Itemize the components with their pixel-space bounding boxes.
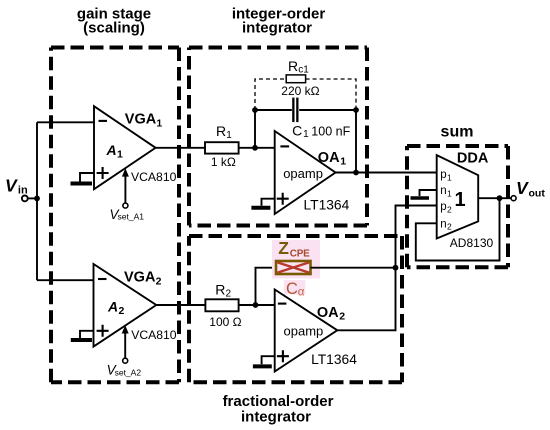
svg-text:OA: OA — [317, 305, 339, 321]
svg-text:set_A2: set_A2 — [115, 368, 142, 378]
wire Z_CPE to OA2 output riser — [311, 267, 396, 269]
wire to A2 inverting input — [37, 279, 94, 281]
svg-text:DDA: DDA — [457, 150, 489, 166]
svg-text:1: 1 — [340, 156, 346, 168]
dashed box: sum — [407, 146, 508, 267]
svg-text:n: n — [440, 218, 446, 230]
wire feedback riser left — [254, 110, 256, 148]
svg-text:R: R — [288, 58, 298, 74]
svg-text:C: C — [286, 280, 298, 298]
wire to A1 inverting input — [37, 121, 94, 123]
svg-text:2: 2 — [447, 204, 452, 214]
control arrow Vset_A1 — [110, 168, 145, 222]
wire R1 to OA1 inverting input — [239, 147, 275, 149]
node Vin junction — [34, 196, 40, 202]
svg-text:A: A — [107, 299, 118, 315]
resistor Rc1 — [281, 58, 319, 98]
svg-text:V: V — [5, 175, 18, 195]
node R2 output junction — [253, 302, 259, 308]
ground at DDA n1 — [411, 196, 430, 200]
wire n2 feedback loop — [416, 198, 500, 260]
wire feedback left to C1 — [255, 109, 292, 111]
svg-text:out: out — [529, 188, 546, 200]
wire C1 to feedback right — [299, 109, 356, 111]
node Vout junction — [497, 195, 503, 201]
ground at OA1 non-inverting input — [251, 199, 274, 208]
op-amp OA2 — [275, 290, 357, 372]
node CPE feedback junction — [393, 265, 399, 271]
node feedback left — [252, 107, 258, 113]
svg-text:VCA810: VCA810 — [131, 170, 177, 184]
dashed box: fractional-order integrator — [189, 236, 402, 382]
svg-text:LT1364: LT1364 — [304, 197, 350, 212]
ground at A2 non-inverting input — [71, 331, 94, 340]
svg-text:c1: c1 — [298, 65, 309, 76]
svg-text:100 Ω: 100 Ω — [209, 315, 241, 329]
svg-text:1: 1 — [156, 118, 162, 130]
wire Vin to node — [28, 197, 37, 199]
svg-text:AD8130: AD8130 — [450, 236, 494, 250]
svg-text:VCA810: VCA810 — [131, 328, 177, 342]
svg-text:p: p — [440, 201, 446, 213]
svg-text:VGA: VGA — [124, 269, 156, 285]
svg-text:2: 2 — [156, 275, 162, 287]
section title: sum — [441, 124, 474, 141]
svg-text:V: V — [516, 178, 529, 198]
svg-text:2: 2 — [447, 222, 452, 232]
svg-text:1: 1 — [117, 148, 123, 160]
svg-text:R: R — [215, 282, 225, 298]
node OA1 output — [353, 170, 359, 176]
node feedback right — [353, 107, 359, 113]
ground at OA2 non-inverting input — [253, 356, 275, 366]
resistor R2 — [205, 282, 241, 329]
svg-text:1: 1 — [447, 189, 452, 199]
control arrow Vset_A2 — [107, 325, 142, 377]
svg-text:LT1364: LT1364 — [311, 352, 357, 367]
CPE element Z_CPE — [276, 238, 311, 274]
resistor R1 — [205, 123, 239, 169]
DDA U1 AD8130 — [437, 150, 494, 250]
dashed box: gain stage — [51, 48, 179, 383]
svg-text:(scaling): (scaling) — [83, 20, 145, 37]
amplifier A2 VGA2 triangle — [94, 264, 177, 347]
svg-text:p: p — [440, 169, 446, 181]
wire OA1 output to DDA p1 — [336, 172, 437, 174]
svg-text:sum: sum — [441, 124, 474, 141]
svg-text:2: 2 — [119, 305, 125, 317]
svg-text:fractional-order: fractional-order — [223, 393, 334, 410]
label C_alpha — [286, 280, 305, 299]
svg-text:set_A1: set_A1 — [118, 212, 145, 222]
svg-text:integrator: integrator — [242, 20, 312, 37]
capacitor C1 — [292, 98, 350, 141]
wire A2 output to R2 — [156, 304, 205, 306]
svg-text:α: α — [298, 287, 305, 299]
ground at A1 non-inverting input — [71, 173, 95, 184]
section title: fractional-order integrator — [223, 393, 334, 426]
svg-text:2: 2 — [226, 288, 232, 299]
wire input bus vertical — [36, 122, 38, 280]
section title: integer-order integrator — [232, 6, 326, 37]
output terminal Vout — [511, 178, 545, 201]
svg-text:1: 1 — [455, 189, 466, 211]
svg-text:1 kΩ: 1 kΩ — [211, 155, 236, 169]
wire feedback riser OA2 — [256, 268, 277, 305]
wire R2 to OA2 inverting input — [239, 304, 275, 306]
svg-text:220 kΩ: 220 kΩ — [281, 84, 319, 98]
svg-text:CPE: CPE — [290, 249, 310, 260]
node R1 output junction — [252, 145, 258, 151]
wire feedback riser right — [355, 110, 357, 173]
svg-text:Z: Z — [278, 238, 289, 258]
amplifier A1 VGA1 triangle — [94, 106, 177, 189]
svg-text:OA: OA — [318, 150, 340, 166]
svg-text:integrator: integrator — [241, 408, 311, 425]
svg-text:2: 2 — [339, 311, 345, 323]
svg-text:C: C — [292, 123, 302, 139]
svg-text:1: 1 — [447, 172, 452, 182]
svg-text:VGA: VGA — [125, 112, 157, 128]
svg-text:in: in — [18, 185, 28, 197]
wire DDA output — [478, 197, 511, 199]
svg-text:A: A — [106, 142, 117, 158]
svg-text:opamp: opamp — [283, 166, 323, 181]
svg-text:opamp: opamp — [284, 324, 324, 339]
svg-text:100 nF: 100 nF — [311, 125, 350, 139]
wire n1 to ground — [420, 190, 437, 196]
wire OA2 output — [337, 206, 436, 331]
svg-text:1: 1 — [226, 130, 232, 141]
CPE highlight background — [272, 240, 320, 295]
dashed box: integer-order integrator — [189, 48, 367, 226]
wire A1 output to R1 — [156, 147, 205, 149]
input terminal Vin — [5, 175, 28, 201]
svg-text:R: R — [216, 123, 226, 139]
svg-text:1: 1 — [303, 129, 309, 140]
op-amp OA1 — [275, 131, 350, 214]
svg-text:n: n — [440, 185, 446, 197]
section title: gain stage (scaling) — [77, 6, 151, 37]
dashed branch to Rc1 — [255, 79, 356, 110]
